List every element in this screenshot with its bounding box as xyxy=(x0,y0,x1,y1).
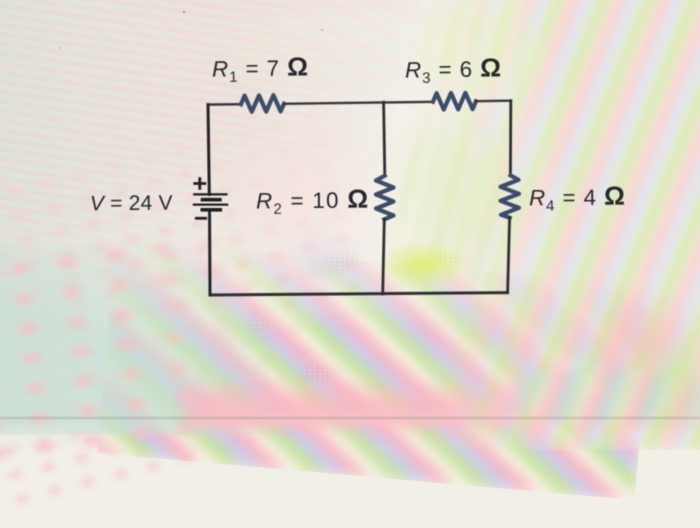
pink blob bottom right xyxy=(575,290,700,390)
yellow-green blob in right cell xyxy=(376,242,468,288)
small speckle cluster left cell xyxy=(320,248,364,276)
battery V short plate 1 xyxy=(203,198,220,202)
pale green wash above R3 xyxy=(405,0,555,110)
dust speck xyxy=(183,11,185,13)
resistor R2 xyxy=(376,176,394,220)
pink dot lattice left-mid xyxy=(0,102,403,528)
bottom edge dark line xyxy=(0,417,700,419)
pale pink wash inside left cell xyxy=(205,105,390,300)
dust speck xyxy=(59,47,61,49)
resistor R4 xyxy=(501,175,520,217)
bottom-left teal patch xyxy=(0,245,270,435)
label R3 = 6 ohm xyxy=(405,52,502,87)
wire left-top segment xyxy=(208,105,209,195)
wire middle-bottom segment xyxy=(383,219,385,294)
soft pink wash top-left xyxy=(0,0,380,220)
lavender patch below R2 label xyxy=(280,230,370,295)
label V = 24 V xyxy=(90,191,173,216)
fine ripples left xyxy=(0,0,310,450)
right stripes xyxy=(380,0,700,450)
bottom bands xyxy=(97,239,654,500)
battery V long plate 2 xyxy=(194,204,227,206)
wire right-bottom segment xyxy=(508,218,510,293)
fine horizontal ripple rows upper-left xyxy=(0,0,406,329)
cyan band bottom right xyxy=(490,360,700,430)
resistor R3 xyxy=(433,93,476,110)
faint ripples across top xyxy=(150,0,570,100)
green-yellow wash stripes inside right cell xyxy=(380,95,525,305)
wire left-bottom segment xyxy=(208,210,212,295)
battery V short plate 2 xyxy=(202,208,220,212)
battery V long plate 1 xyxy=(194,193,226,195)
green wash right cell xyxy=(400,120,530,270)
speckle cluster a xyxy=(240,315,276,335)
green band bottom-right corner xyxy=(625,330,700,440)
battery minus sign xyxy=(196,217,205,220)
wire top-left segment xyxy=(208,103,241,106)
strong pink band bottom edge xyxy=(185,378,700,428)
battery plus sign xyxy=(195,179,205,189)
pink tinge top edge xyxy=(120,0,420,24)
pink strip at very bottom xyxy=(215,412,700,424)
label R1 = 7 ohm xyxy=(212,51,309,86)
teal tint left side xyxy=(0,0,280,424)
speckle cluster c xyxy=(428,248,464,270)
wire top-right segment xyxy=(476,99,511,102)
pink blob right of circuit bottom xyxy=(455,290,605,375)
wire bottom segment xyxy=(210,293,508,295)
label R2 = 10 ohm xyxy=(256,184,370,218)
speckle cluster b xyxy=(295,362,337,386)
wire right-top segment xyxy=(509,101,512,176)
label R4 = 4 ohm xyxy=(529,180,626,214)
bottom-left big pink dots xyxy=(0,218,304,482)
resistor R1 xyxy=(241,95,284,112)
dust speck xyxy=(321,29,323,31)
wire top-middle segment xyxy=(284,102,433,104)
wire middle-top segment xyxy=(384,102,385,176)
